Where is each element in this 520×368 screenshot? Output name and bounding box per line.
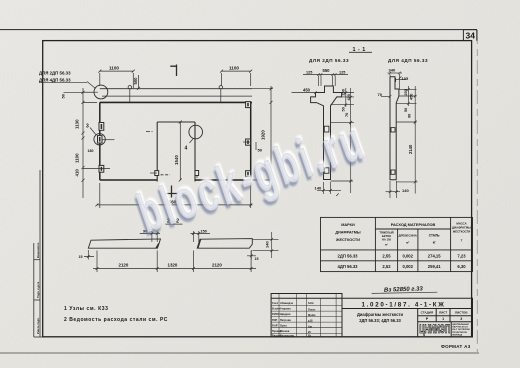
plan: right edge embedded plate lower bbox=[246, 171, 251, 177]
svg-text:ЛИСТОВ: ЛИСТОВ bbox=[455, 311, 468, 315]
svg-text:1320: 1320 bbox=[168, 263, 178, 268]
svg-text:ДЛЯ 2ДП 56.33: ДЛЯ 2ДП 56.33 bbox=[309, 58, 349, 63]
svg-text:ДЛЯ 2ДП 56.33: ДЛЯ 2ДП 56.33 bbox=[39, 71, 71, 76]
svg-text:Взам.инв.№: Взам.инв.№ bbox=[36, 242, 40, 258]
dim 150 mini (right of opening) bbox=[191, 230, 211, 242]
svg-text:105: 105 bbox=[402, 76, 409, 81]
institute tiny text block bbox=[452, 323, 470, 336]
svg-text:РАСХОД МАТЕРИАЛОВ: РАСХОД МАТЕРИАЛОВ bbox=[391, 222, 436, 227]
plan: left edge embedded plate lower bbox=[83, 165, 110, 172]
svg-text:ЖЕСТКОСТИ: ЖЕСТКОСТИ bbox=[452, 229, 471, 233]
svg-text:550: 550 bbox=[323, 68, 331, 73]
plan: right edge embedded plate upper bbox=[246, 102, 251, 108]
2ДП right-side extension lines bbox=[331, 88, 355, 125]
2ДП dim 450 left bbox=[292, 87, 317, 93]
svg-text:6,30: 6,30 bbox=[457, 264, 466, 269]
table row 2 bbox=[338, 264, 467, 269]
svg-text:1: 1 bbox=[442, 317, 444, 321]
svg-text:7,23: 7,23 bbox=[457, 253, 466, 258]
svg-text:500: 500 bbox=[133, 77, 138, 85]
plan: web right edge bbox=[250, 102, 252, 180]
svg-text:Ам: Ам bbox=[308, 324, 312, 328]
2ДП web plate upper bbox=[324, 126, 329, 132]
plan: right jamb embedded plate bbox=[195, 171, 199, 179]
plan: opening left jamb bbox=[156, 122, 158, 182]
drawing frame bbox=[43, 41, 472, 337]
plan: left edge embedded plate in circle 3 bbox=[98, 136, 115, 143]
2ДП profile outline bbox=[311, 86, 342, 180]
svg-text:3: 3 bbox=[460, 317, 462, 321]
svg-text:15: 15 bbox=[255, 257, 259, 261]
page bottom edge line bbox=[0, 352, 479, 354]
svg-text:Диафрагмы жесткости: Диафрагмы жесткости bbox=[357, 312, 404, 317]
ЦНИИЭП logo bbox=[419, 324, 450, 337]
svg-text:ДРЕВЕСИНА: ДРЕВЕСИНА bbox=[399, 233, 418, 237]
svg-text:450: 450 bbox=[409, 94, 413, 100]
svg-text:Т: Т bbox=[461, 238, 463, 242]
svg-text:Натальина: Натальина bbox=[280, 333, 294, 337]
svg-text:БЕТОН: БЕТОН bbox=[382, 234, 391, 238]
2ДП main height dim 1920 bbox=[331, 121, 354, 193]
plan: lifting loop left bbox=[128, 86, 131, 89]
svg-text:4: 4 bbox=[185, 146, 188, 152]
svg-text:3: 3 bbox=[86, 124, 89, 130]
dim 140 right end (rotated) bbox=[253, 232, 279, 258]
svg-text:70: 70 bbox=[378, 92, 383, 97]
title block left grid bbox=[271, 294, 342, 338]
stage/sheet headers bbox=[421, 311, 469, 322]
svg-text:2ДП 56.33: 2ДП 56.33 bbox=[338, 253, 359, 258]
svg-text:м³: м³ bbox=[385, 242, 388, 246]
svg-text:274,15: 274,15 bbox=[428, 253, 441, 258]
2ДП web bottom bbox=[324, 179, 331, 181]
svg-text:Инв.№ подл.: Инв.№ подл. bbox=[36, 317, 40, 334]
plan: top chord top edge bbox=[100, 88, 252, 90]
node circle 3 (left edge) bbox=[94, 134, 105, 145]
svg-text:450: 450 bbox=[303, 87, 311, 92]
title block outer bbox=[271, 294, 472, 338]
svg-text:250: 250 bbox=[342, 89, 346, 95]
svg-text:ДЛЯ 4ДП 56.33: ДЛЯ 4ДП 56.33 bbox=[39, 77, 71, 82]
svg-text:Петрова: Петрова bbox=[280, 318, 291, 322]
2-2 right bar bbox=[197, 239, 252, 249]
plan: opening right jamb bbox=[194, 122, 196, 182]
svg-text:ЦЕНТРАЛЬНЫЙ: ЦЕНТРАЛЬНЫЙ bbox=[452, 323, 469, 326]
svg-text:ЖИЛИЩА: ЖИЛИЩА bbox=[452, 333, 462, 336]
dim 90 mini (left of opening) bbox=[140, 230, 160, 242]
svg-text:Б司: Б司 bbox=[308, 319, 313, 323]
plan: top chord bottom (web top) thick line bbox=[100, 101, 252, 103]
svg-text:125: 125 bbox=[306, 71, 312, 75]
dim 1100 top-right bbox=[220, 65, 252, 86]
plan: lifting loop right bbox=[219, 86, 222, 89]
table header mass col bbox=[452, 221, 471, 242]
svg-text:Согл: Согл bbox=[272, 301, 278, 305]
svg-text:НАУЧНО-ИССЛ.: НАУЧНО-ИССЛ. bbox=[452, 326, 468, 329]
svg-text:СТАЛЬ: СТАЛЬ bbox=[429, 233, 441, 237]
svg-text:0,002: 0,002 bbox=[402, 253, 413, 258]
svg-text:Scld: Scld bbox=[308, 301, 314, 305]
svg-text:1100: 1100 bbox=[229, 65, 239, 70]
svg-text:0,002: 0,002 bbox=[402, 264, 413, 269]
svg-text:2120: 2120 bbox=[119, 263, 129, 268]
dim 15 mini right end bbox=[247, 250, 259, 261]
plan: opening top edge bbox=[157, 121, 195, 123]
svg-text:2140: 2140 bbox=[408, 144, 413, 154]
2ДП bottom dim 140 bbox=[315, 182, 342, 196]
svg-text:Mudw: Mudw bbox=[308, 313, 316, 317]
page right edge line bbox=[476, 30, 478, 352]
2-2 left bar bbox=[88, 239, 160, 248]
svg-text:340: 340 bbox=[389, 67, 396, 72]
dim 5560 bottom of plan bbox=[95, 183, 252, 208]
svg-text:140: 140 bbox=[264, 241, 269, 248]
plan: axis dash at left jamb bbox=[146, 131, 154, 133]
dim 50 right mid mini bbox=[256, 142, 263, 153]
2ДП web plate lower bbox=[324, 168, 329, 174]
svg-text:1.020-1/87. 4-1-КЖ: 1.020-1/87. 4-1-КЖ bbox=[362, 301, 446, 308]
node circle 4 (right jamb top) bbox=[189, 125, 203, 139]
4ДП dim 340 top bbox=[388, 67, 403, 89]
table grid bbox=[321, 217, 473, 271]
svg-text:ДЛЯ 4ДП 56.33: ДЛЯ 4ДП 56.33 bbox=[388, 58, 428, 63]
svg-text:Подп. и дата: Подп. и дата bbox=[36, 281, 40, 298]
svg-text:410: 410 bbox=[75, 169, 80, 177]
svg-text:Абашидзе: Абашидзе bbox=[280, 301, 294, 305]
4ДП dim 105 bbox=[395, 76, 409, 82]
table header col1 bbox=[335, 223, 361, 242]
svg-text:Лouts: Лouts bbox=[308, 308, 316, 312]
4ДП right-side extension lines bbox=[396, 86, 416, 125]
svg-text:150: 150 bbox=[201, 230, 207, 234]
plan: right edge embedded plate middle bbox=[243, 139, 251, 145]
section cut mark 1 (top) bbox=[170, 65, 176, 77]
plan: top chord middle line bbox=[102, 95, 252, 97]
svg-text:50: 50 bbox=[61, 93, 66, 98]
section cut mark 1 (bottom) bbox=[165, 186, 185, 198]
svg-text:ДИАФРАГМЫ: ДИАФРАГМЫ bbox=[335, 231, 361, 235]
svg-text:450: 450 bbox=[347, 94, 351, 100]
svg-text:15: 15 bbox=[79, 255, 83, 259]
4ДП dim 70 left bbox=[378, 92, 392, 98]
plan: web bottom edge left of opening bbox=[100, 179, 157, 181]
svg-text:1100: 1100 bbox=[109, 65, 119, 70]
svg-text:2ДП 56.33; 4ДП 56.33: 2ДП 56.33; 4ДП 56.33 bbox=[359, 318, 401, 323]
dim 1540 opening (rotated) bbox=[174, 121, 182, 182]
svg-text:4ДП 56.33: 4ДП 56.33 bbox=[338, 264, 359, 269]
sheet number box bbox=[463, 30, 476, 41]
watermark block-gbi.ru bbox=[127, 106, 376, 248]
svg-text:МАРКИ: МАРКИ bbox=[341, 223, 355, 227]
svg-text:1100: 1100 bbox=[75, 153, 80, 163]
plan: web bottom edge right of opening bbox=[195, 179, 251, 181]
svg-text:ФОРМАТ А3: ФОРМАТ А3 bbox=[441, 344, 471, 349]
4ДП bottom dim 140 bbox=[386, 181, 410, 198]
plan: left edge embedded plate upper bbox=[99, 123, 104, 131]
svg-text:1 Узлы см. К33: 1 Узлы см. К33 bbox=[64, 306, 109, 312]
svg-text:ТЯЖЕЛЫЙ: ТЯЖЕЛЫЙ bbox=[379, 230, 393, 234]
4ДП web plate upper bbox=[391, 128, 395, 132]
svg-text:СТАДИЯ: СТАДИЯ bbox=[421, 311, 433, 315]
svg-text:250: 250 bbox=[404, 89, 408, 95]
dim 500 (loop offset, rotated) bbox=[133, 75, 140, 90]
svg-text:140: 140 bbox=[402, 188, 409, 193]
node circle 4 label leader bbox=[190, 138, 194, 143]
dim 15 mini left end bbox=[79, 250, 95, 260]
svg-text:ЖЕСТКОСТИ: ЖЕСТКОСТИ bbox=[335, 238, 360, 242]
left dim column line bbox=[75, 88, 99, 198]
table row 1 bbox=[338, 253, 467, 258]
svg-text:2 Ведомость расхода стали см.: 2 Ведомость расхода стали см. РС bbox=[64, 317, 168, 323]
plan: left jamb embedded plate bbox=[150, 171, 159, 176]
svg-text:ЦНИИЭП: ЦНИИЭП bbox=[419, 324, 450, 337]
svg-text:180: 180 bbox=[88, 149, 94, 153]
svg-text:ЛИСТ: ЛИСТ bbox=[439, 311, 447, 315]
svg-text:Ясенев: Ясенев bbox=[280, 329, 290, 333]
4ДП web plate lower bbox=[391, 170, 395, 174]
2-2 left bar inner edge bbox=[156, 244, 159, 249]
svg-text:ГИП: ГИП bbox=[272, 318, 277, 322]
dim 50 far left (rotated) bbox=[61, 92, 89, 98]
svg-text:1540: 1540 bbox=[174, 155, 179, 165]
svg-text:2120: 2120 bbox=[212, 263, 222, 268]
node circle 3 label leader bbox=[90, 128, 96, 135]
filing strip rotated captions bbox=[36, 242, 40, 334]
section 1-1 title bbox=[353, 47, 366, 53]
table subheader steel bbox=[429, 233, 441, 244]
node circle 1 leader from label bbox=[87, 82, 96, 93]
svg-text:Орел: Орел bbox=[280, 323, 287, 327]
page top edge line bbox=[0, 29, 477, 31]
title block left grid tiny texts bbox=[272, 301, 316, 337]
dim 1920 right side (rotated) bbox=[252, 86, 273, 185]
table subheader concrete bbox=[379, 230, 393, 246]
plan: web left edge bbox=[99, 102, 101, 180]
dim 1100 top-left bbox=[98, 65, 135, 88]
svg-text:Агарина: Агарина bbox=[280, 307, 291, 311]
node circle 1 (top-left corner) bbox=[94, 85, 108, 99]
2-2 bottom dims 2120/1320/2120 bbox=[93, 251, 256, 273]
svg-text:Р.АР: Р.АР bbox=[272, 323, 278, 327]
svg-text:1130: 1130 bbox=[75, 119, 80, 129]
4ДП profile outline bbox=[390, 77, 399, 180]
plan: hidden dashes at opening bottom bbox=[161, 174, 171, 176]
svg-text:м³: м³ bbox=[406, 240, 409, 244]
svg-text:2,52: 2,52 bbox=[382, 264, 391, 269]
svg-text:90: 90 bbox=[408, 114, 412, 118]
left filing strip bbox=[34, 170, 43, 337]
svg-text:259,41: 259,41 bbox=[428, 264, 441, 269]
svg-text:Щедрин: Щедрин bbox=[280, 312, 291, 316]
svg-text:2,55: 2,55 bbox=[382, 253, 391, 258]
2-2 right bar inner end thick bbox=[198, 239, 201, 248]
svg-text:34: 34 bbox=[466, 31, 476, 41]
2ДП top dims 125/550/125 bbox=[303, 68, 348, 86]
svg-text:50: 50 bbox=[404, 108, 408, 112]
table subheader wood bbox=[399, 233, 418, 244]
svg-text:125: 125 bbox=[339, 71, 345, 75]
svg-text:Р.ИОС: Р.ИОС bbox=[272, 312, 280, 316]
svg-text:НА 105: НА 105 bbox=[382, 237, 392, 241]
4ДП main height dim 2140 bbox=[396, 121, 417, 194]
